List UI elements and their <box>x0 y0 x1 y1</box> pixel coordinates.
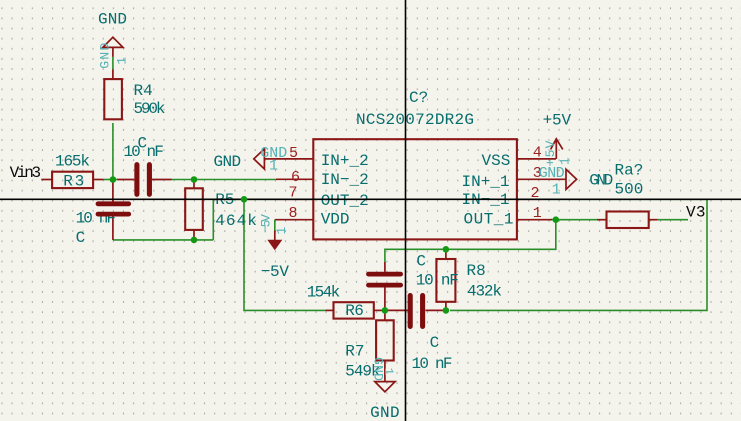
svg-text:1: 1 <box>274 227 289 235</box>
capacitor C3 10nF <box>384 262 386 272</box>
svg-text:432k: 432k <box>467 282 502 300</box>
wire vertical x213 <box>212 199 214 240</box>
capacitor C2 10nF <box>112 180 114 202</box>
svg-text:500: 500 <box>615 181 644 199</box>
svg-text:590k: 590k <box>134 100 166 118</box>
wire node to R6 <box>244 199 325 310</box>
junction node at OUT_1 <box>553 216 560 223</box>
svg-text:1: 1 <box>557 157 572 165</box>
svg-text:R6: R6 <box>345 302 364 320</box>
svg-text:1: 1 <box>533 205 542 222</box>
pin 8 with -5V power <box>275 219 314 221</box>
svg-text:+5V: +5V <box>543 140 558 166</box>
svg-text:C: C <box>430 334 440 352</box>
svg-text:8: 8 <box>289 205 298 222</box>
svg-text:C: C <box>416 252 426 270</box>
svg-text:GND: GND <box>214 153 242 171</box>
wire Vin3 to R3 <box>41 179 52 181</box>
svg-text:R7: R7 <box>345 343 364 361</box>
pin 2 <box>517 198 543 200</box>
pin 4 <box>517 158 556 160</box>
svg-text:4: 4 <box>533 145 542 162</box>
svg-text:6: 6 <box>291 169 300 186</box>
svg-text:10 nF: 10 nF <box>416 271 459 289</box>
svg-text:10 nF: 10 nF <box>123 143 163 161</box>
svg-text:5: 5 <box>289 145 298 162</box>
svg-text:+5V: +5V <box>543 111 572 129</box>
svg-text:R5: R5 <box>215 191 234 209</box>
svg-text:R3: R3 <box>63 173 84 191</box>
svg-text:R8: R8 <box>467 262 486 280</box>
resistor R7 <box>376 320 394 360</box>
axis vertical <box>405 0 407 421</box>
wire IN-_1 net under axis to feedback <box>450 199 707 310</box>
svg-text:IN+_1: IN+_1 <box>462 173 510 191</box>
junction node at R5 bottom <box>191 237 198 244</box>
wire OUT_1 to Ra <box>550 219 597 221</box>
wire OUT_1 down to mid net <box>385 220 556 262</box>
svg-text:GND: GND <box>370 404 400 421</box>
ground symbol GND at pin 3 <box>566 169 577 189</box>
svg-text:GND: GND <box>539 165 565 182</box>
junction node at R8 bottom <box>443 307 450 314</box>
capacitor C2 plates <box>98 201 129 206</box>
resistor R8 <box>436 259 455 302</box>
resistor Ra <box>607 212 649 229</box>
svg-text:GND: GND <box>97 43 112 69</box>
junction node at R5 top <box>191 176 198 183</box>
pin 3 <box>517 178 566 180</box>
svg-text:10 nF: 10 nF <box>412 355 453 373</box>
power symbol +5V <box>555 139 557 159</box>
wire node to cap C2 bottom net <box>113 239 213 241</box>
resistor R5 <box>185 188 203 230</box>
svg-text:VSS: VSS <box>482 152 511 170</box>
junction node at R8 top <box>443 246 450 253</box>
svg-text:Vin3: Vin3 <box>10 164 41 182</box>
ground symbol GND top <box>103 37 123 47</box>
svg-text:165k: 165k <box>55 152 90 170</box>
svg-text:IN+_2: IN+_2 <box>321 152 369 170</box>
pin 7 <box>276 198 313 200</box>
svg-text:464k: 464k <box>215 212 257 230</box>
pin 5 <box>276 158 313 160</box>
svg-text:GND: GND <box>98 11 127 29</box>
pin 6 <box>276 178 313 180</box>
wire R3 right to cap C1 <box>93 179 104 181</box>
op-amp U1 NCS20072DR2G <box>313 139 517 239</box>
svg-text:OUT_2: OUT_2 <box>321 192 369 210</box>
resistor R6 <box>334 302 374 318</box>
svg-text:R4: R4 <box>134 82 153 100</box>
resistor R4 <box>104 79 122 119</box>
wire cap C1 right to pin 6 <box>171 179 276 181</box>
power symbol -5V <box>267 240 282 251</box>
junction node at OUT_2 branch <box>241 196 248 203</box>
svg-text:NCS20072DR2G: NCS20072DR2G <box>356 111 474 129</box>
wire Ra to V3 <box>658 219 688 221</box>
junction node at R6/R7/C3 <box>382 307 389 314</box>
ground symbol GND at pin 5 <box>254 149 265 169</box>
svg-text:OUT_1: OUT_1 <box>464 211 514 229</box>
svg-text:IN−_2: IN−_2 <box>321 171 369 189</box>
svg-text:GND: GND <box>589 171 613 189</box>
svg-text:1: 1 <box>114 57 129 65</box>
svg-text:−5V: −5V <box>258 214 273 233</box>
capacitor C4 10nF <box>385 309 408 311</box>
svg-text:V3: V3 <box>686 204 706 222</box>
wire OUT_2 net under axis <box>213 198 276 200</box>
svg-text:154k: 154k <box>307 284 341 302</box>
junction node at R3/C1 <box>110 176 117 183</box>
svg-text:C: C <box>76 229 86 247</box>
svg-text:VDD: VDD <box>321 211 350 229</box>
svg-text:1: 1 <box>552 182 561 199</box>
pin 1 <box>517 219 552 221</box>
svg-text:1: 1 <box>269 158 278 175</box>
svg-text:−5V: −5V <box>261 263 290 281</box>
ground symbol GND bottom <box>375 382 395 392</box>
svg-text:Ra?: Ra? <box>615 162 644 180</box>
wire R4 bottom to node <box>112 123 114 180</box>
svg-text:1: 1 <box>381 368 396 376</box>
wire cap C4 right node to R8 <box>445 249 447 252</box>
capacitor C1 10nF <box>134 165 139 195</box>
svg-text:C?: C? <box>409 89 428 107</box>
resistor R3 <box>52 172 93 188</box>
axis horizontal <box>0 198 741 200</box>
